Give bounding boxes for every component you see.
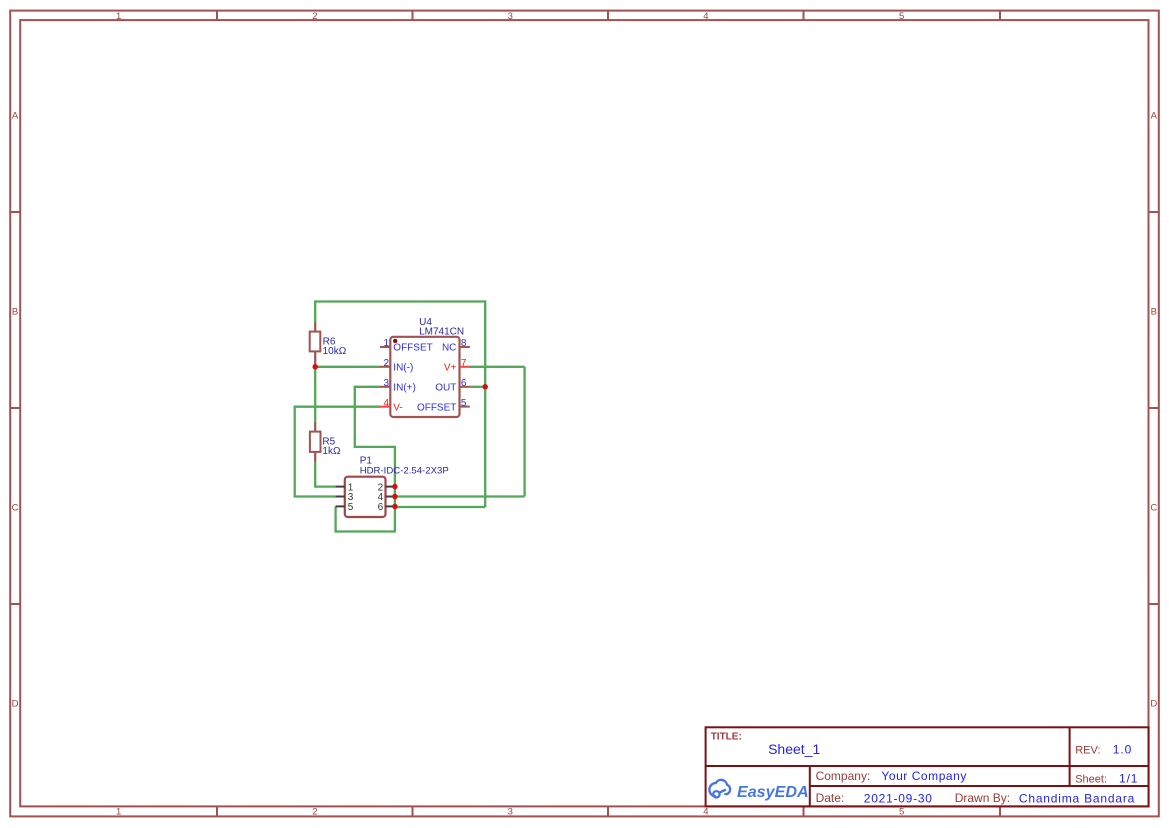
svg-text:10kΩ: 10kΩ [323,346,347,357]
svg-text:OFFSET: OFFSET [417,403,456,414]
junction OUT [482,384,488,390]
svg-text:A: A [12,111,19,122]
svg-text:D: D [12,699,19,710]
op-amp U4 [380,317,470,417]
pin 1 dot [393,339,397,343]
pin 3 [380,386,390,388]
svg-text:3: 3 [508,807,513,818]
pin 7 [460,366,470,368]
svg-text:5: 5 [899,11,904,22]
wire R5 bottom to P1 pin1 [315,462,335,486]
svg-text:1.0: 1.0 [1113,743,1132,757]
svg-text:A: A [1151,111,1158,122]
resistor R6 [310,323,347,367]
pin 4 [380,406,390,408]
svg-text:D: D [1150,699,1157,710]
P1 pin 5 [336,505,345,507]
junction P1 pin6 [392,504,398,510]
svg-text:Your Company: Your Company [881,769,967,783]
svg-text:C: C [12,503,19,514]
svg-text:C: C [1150,503,1157,514]
wire IN- row [315,366,380,368]
pin 8 [460,346,470,348]
svg-text:1: 1 [116,11,121,22]
svg-text:2: 2 [312,11,317,22]
title block [706,727,1149,806]
wire OUT vertical [484,300,486,507]
svg-text:HDR-IDC-2.54-2X3P: HDR-IDC-2.54-2X3P [360,465,449,476]
pin 1 [380,346,390,348]
svg-text:7: 7 [461,358,467,369]
svg-text:2021-09-30: 2021-09-30 [864,791,933,805]
svg-text:Company:: Company: [816,769,871,783]
svg-text:B: B [12,307,18,318]
resistor R5 [310,422,341,463]
pin 2 [380,366,390,368]
wire V+ vertical [523,367,525,497]
svg-text:Date:: Date: [816,791,845,805]
svg-text:EasyEDA: EasyEDA [737,783,809,801]
svg-text:3: 3 [508,11,513,22]
wire R6 bottom to R5 top [314,367,316,422]
junction P1 pin2 [392,484,398,490]
EasyEDA logo [709,780,808,801]
P1 pin 4 [386,496,395,498]
svg-text:NC: NC [442,343,456,354]
P1 pin 6 [386,505,395,507]
wire IN+ route to P1 [336,387,395,532]
svg-text:V-: V- [393,403,402,414]
svg-text:REV:: REV: [1075,745,1100,757]
svg-text:1: 1 [383,338,389,349]
svg-text:IN(+): IN(+) [393,383,416,394]
wire pin6 row [395,506,485,508]
svg-text:3: 3 [383,378,389,389]
header P1 [336,456,449,517]
P1 pin 2 [386,486,395,488]
pin 6 [460,386,470,388]
wire top feedback [315,300,485,302]
svg-text:B: B [1151,307,1157,318]
svg-text:1kΩ: 1kΩ [322,446,341,457]
wire left vertical to R6 [314,300,316,322]
svg-text:2: 2 [383,358,389,369]
svg-text:1: 1 [116,807,121,818]
wire V+ row [470,366,525,368]
svg-text:6: 6 [378,502,384,513]
svg-text:IN(-): IN(-) [393,363,413,374]
svg-text:4: 4 [703,807,708,818]
svg-text:5: 5 [461,398,467,409]
wire OUT stub to junction [470,386,486,388]
svg-text:1/1: 1/1 [1119,772,1138,786]
svg-text:5: 5 [899,807,904,818]
svg-text:2: 2 [312,807,317,818]
svg-text:5: 5 [348,502,354,513]
P1 pin 1 [336,486,345,488]
svg-text:4: 4 [703,11,708,22]
svg-text:OFFSET: OFFSET [393,343,432,354]
svg-text:8: 8 [461,338,467,349]
svg-text:TITLE:: TITLE: [711,732,742,743]
svg-text:OUT: OUT [435,383,456,394]
svg-text:4: 4 [383,398,389,409]
wire V- route to P1 pin3 [295,407,381,497]
svg-text:V+: V+ [444,363,457,374]
svg-text:Sheet_1: Sheet_1 [768,741,820,757]
junction P1 pin4 [392,494,398,500]
svg-text:Drawn By:: Drawn By: [955,791,1010,805]
wire pin4 row [395,495,525,497]
pin 5 [460,406,470,408]
svg-text:Sheet:: Sheet: [1075,773,1107,785]
junction IN- / R6-R5 [312,364,318,370]
svg-text:Chandima Bandara: Chandima Bandara [1019,791,1135,805]
svg-text:6: 6 [461,378,467,389]
svg-text:LM741CN: LM741CN [419,326,464,337]
P1 pin 3 [336,496,345,498]
